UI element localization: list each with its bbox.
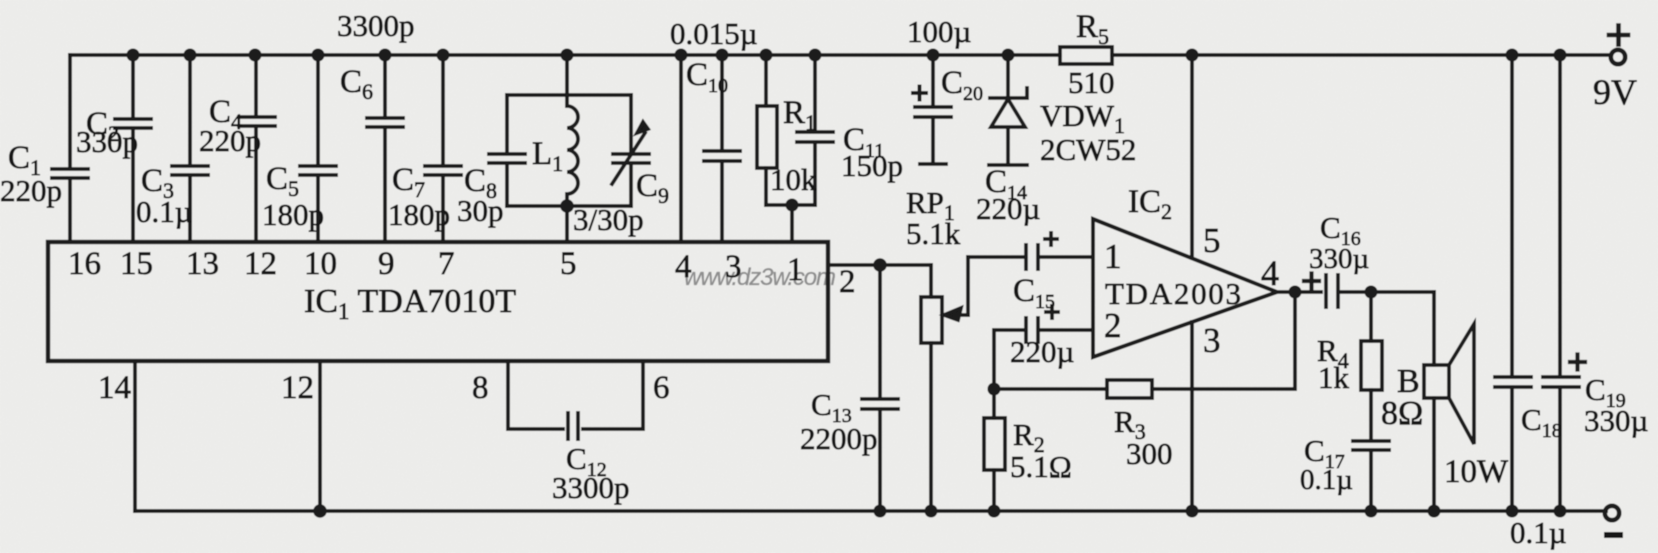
svg-text:5: 5 — [560, 246, 577, 282]
resistor R4 — [1361, 292, 1382, 438]
svg-text:14: 14 — [98, 370, 131, 406]
svg-text:330p: 330p — [76, 124, 138, 159]
capacitor C8 — [489, 95, 525, 206]
label + of C15 — [1046, 306, 1058, 318]
svg-text:330µ: 330µ — [1584, 403, 1648, 438]
label + of C14 — [1045, 233, 1057, 245]
wire ground bottom rail — [135, 509, 1606, 513]
svg-text:3/30p: 3/30p — [573, 202, 644, 237]
svg-text:0.015µ: 0.015µ — [670, 16, 758, 51]
svg-text:12: 12 — [244, 246, 277, 282]
capacitor C10 — [704, 55, 740, 242]
svg-text:www.dz3w.com: www.dz3w.com — [684, 264, 836, 291]
node output-feedback — [1289, 286, 1302, 299]
svg-text:30p: 30p — [457, 193, 504, 228]
svg-text:330µ: 330µ — [1309, 243, 1369, 275]
svg-text:2: 2 — [1104, 306, 1122, 345]
node rail-C4 — [249, 49, 262, 62]
svg-text:220p: 220p — [199, 123, 261, 158]
label + of C20 — [913, 87, 926, 100]
svg-text:0.1µ: 0.1µ — [136, 194, 193, 229]
capacitor C18 — [1495, 55, 1531, 511]
node gnd-R2 — [988, 505, 1001, 518]
svg-text:12: 12 — [281, 370, 314, 406]
label - terminal — [1604, 532, 1623, 538]
node output-R4 — [1365, 286, 1378, 299]
svg-text:5.1Ω: 5.1Ω — [1010, 449, 1072, 484]
node gnd-IC2pin3 — [1186, 505, 1199, 518]
node rail-C18 — [1506, 49, 1519, 62]
capacitor C2 — [115, 55, 151, 242]
svg-text:100µ: 100µ — [907, 14, 971, 49]
capacitor C20 — [915, 55, 951, 164]
svg-text:1k: 1k — [1318, 360, 1350, 395]
svg-text:4: 4 — [675, 249, 692, 285]
node rail-C20 — [927, 49, 940, 62]
node rail-VDW1 — [1002, 49, 1015, 62]
svg-text:3300p: 3300p — [552, 470, 630, 505]
node rail-C3 — [184, 49, 197, 62]
wire IC2 pin3 lead — [1190, 322, 1194, 511]
node rail-C7 — [437, 49, 450, 62]
label + of C19 — [1570, 355, 1585, 370]
svg-text:IC1TDA7010T: IC1TDA7010T — [304, 283, 516, 324]
node gnd-RP1 — [925, 505, 938, 518]
svg-text:10: 10 — [304, 246, 337, 282]
svg-text:1: 1 — [787, 252, 804, 288]
svg-text:300: 300 — [1126, 436, 1173, 471]
svg-text:10k: 10k — [770, 162, 817, 197]
op-amp IC2 TDA2003 — [1093, 219, 1277, 357]
terminal - — [1605, 506, 1619, 520]
node rail-C6 — [379, 49, 392, 62]
svg-text:2200p: 2200p — [800, 421, 878, 456]
svg-text:13: 13 — [186, 246, 219, 282]
speaker B — [1424, 292, 1474, 511]
node gnd-C13 — [874, 505, 887, 518]
svg-text:7: 7 — [438, 246, 455, 282]
svg-text:9: 9 — [378, 246, 395, 282]
svg-text:8Ω: 8Ω — [1381, 395, 1423, 432]
svg-text:180p: 180p — [388, 197, 450, 232]
svg-text:0.1µ: 0.1µ — [1510, 515, 1567, 550]
node tank bottom — [560, 199, 574, 213]
node rail-C19 — [1554, 49, 1567, 62]
svg-text:5: 5 — [1203, 221, 1221, 260]
capacitor C9 (variable) — [612, 95, 649, 206]
capacitor C5 — [300, 55, 336, 242]
resistor R2 — [984, 389, 1005, 511]
svg-text:16: 16 — [68, 246, 101, 282]
node rail-L1 — [561, 49, 574, 62]
label + of battery terminal — [1609, 26, 1628, 45]
wire pin8 lead — [508, 361, 563, 429]
svg-text:2CW52: 2CW52 — [1040, 132, 1136, 167]
wire IC2 output — [1277, 290, 1434, 294]
wire pin4 lead — [679, 55, 683, 242]
svg-text:2: 2 — [839, 264, 856, 300]
label + of C16 — [1304, 274, 1319, 289]
svg-text:15: 15 — [120, 246, 153, 282]
node rail-IC2pin5 — [1186, 49, 1199, 62]
svg-text:3: 3 — [1203, 321, 1221, 360]
svg-text:0.1µ: 0.1µ — [1300, 464, 1353, 496]
capacitor C17 — [1353, 441, 1389, 511]
inductor L1 — [567, 55, 578, 242]
svg-text:180p: 180p — [262, 197, 324, 232]
capacitor C12 — [568, 413, 578, 439]
capacitor C16 — [1326, 275, 1338, 307]
svg-text:150p: 150p — [841, 148, 903, 183]
svg-text:220µ: 220µ — [976, 191, 1040, 226]
terminal + 9V — [1611, 50, 1625, 64]
svg-text:10W: 10W — [1444, 454, 1509, 490]
node rail-R1 — [760, 49, 773, 62]
capacitor C4 — [239, 55, 275, 242]
capacitor C1 — [52, 55, 88, 242]
wire feedback tap — [1152, 292, 1295, 389]
node rail-C2 — [127, 49, 140, 62]
wire pin12 bottom lead — [318, 361, 322, 511]
svg-text:TDA2003: TDA2003 — [1105, 276, 1241, 311]
node rail-C5 — [312, 49, 325, 62]
capacitor C13 — [862, 265, 898, 511]
potentiometer RP1 — [921, 257, 968, 511]
svg-text:1: 1 — [1104, 237, 1122, 276]
svg-text:3: 3 — [725, 249, 742, 285]
node gnd-speaker — [1428, 505, 1441, 518]
resistor R5 — [1060, 47, 1112, 64]
wire IC2 pin5 lead — [1190, 55, 1194, 258]
capacitor C7 — [425, 55, 461, 242]
node rail-C10 — [716, 49, 729, 62]
svg-text:6: 6 — [653, 370, 670, 406]
wire pin2 — [828, 263, 931, 267]
node gnd-pin12 — [313, 504, 327, 518]
capacitor C3 — [172, 55, 208, 242]
svg-text:510: 510 — [1068, 65, 1115, 100]
node R1-C11-pin1 — [786, 199, 799, 212]
svg-text:4: 4 — [1261, 253, 1279, 293]
node gnd-C19 — [1554, 505, 1567, 518]
node gnd-C18 — [1506, 505, 1519, 518]
resistor R3 — [994, 380, 1152, 398]
node rail-pin4 — [675, 49, 688, 62]
svg-text:9V: 9V — [1593, 72, 1637, 112]
node rail-C11 — [809, 49, 822, 62]
capacitor C11 — [797, 55, 833, 205]
node pin2-C13 — [873, 258, 887, 272]
svg-text:220p: 220p — [0, 173, 62, 208]
zener diode VDW1 — [989, 55, 1027, 165]
capacitor C15 — [994, 318, 1093, 389]
IC1 TDA7010T body — [48, 242, 828, 361]
capacitor C6 — [367, 55, 403, 242]
wire tank circuit box — [507, 95, 631, 206]
node gnd-C17 — [1365, 505, 1378, 518]
svg-text:3300p: 3300p — [337, 8, 415, 43]
wire R1/C11 to pin1 — [766, 205, 815, 242]
resistor R1 — [757, 55, 777, 205]
svg-text:220µ: 220µ — [1010, 334, 1074, 369]
capacitor C14 — [968, 245, 1093, 269]
wire pin14 left riser — [133, 361, 137, 511]
wire pin6 lead — [583, 361, 643, 429]
node C15-R2-R3 — [988, 383, 1001, 396]
svg-text:5.1k: 5.1k — [906, 216, 961, 251]
capacitor C19 — [1543, 55, 1579, 511]
svg-text:8: 8 — [472, 370, 489, 406]
wire top +9V rail — [70, 53, 1611, 57]
